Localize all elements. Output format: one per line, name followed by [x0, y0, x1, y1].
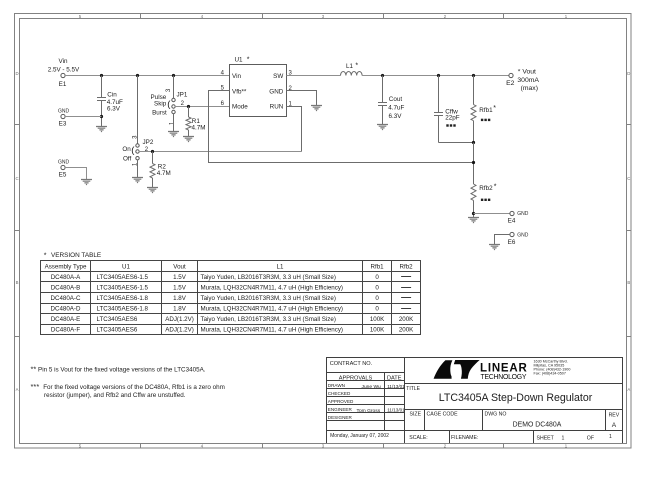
version table: [41, 252, 421, 334]
svg-text:DC480A-A: DC480A-A: [51, 274, 81, 281]
inductor L1: [341, 63, 363, 76]
svg-text:22pF: 22pF: [445, 115, 460, 122]
terminal E2 (Vout): [506, 69, 539, 93]
svg-text:LTC3405AES6-1.8: LTC3405AES6-1.8: [97, 306, 149, 313]
ground (below R1): [183, 137, 194, 142]
svg-text:DWG NO: DWG NO: [485, 411, 507, 417]
ground (E5): [81, 180, 92, 185]
wire Vin rail to JP2 pin 3: [137, 76, 139, 145]
svg-text:GND: GND: [58, 159, 70, 165]
svg-text:Vout: Vout: [173, 264, 186, 271]
svg-text:LTC3405A Step-Down Regulator: LTC3405A Step-Down Regulator: [439, 392, 593, 404]
wire U1 GND pin: [287, 91, 317, 106]
svg-text:GND: GND: [269, 88, 283, 95]
svg-text:200K: 200K: [399, 316, 414, 323]
svg-text:2.5V - 5.5V: 2.5V - 5.5V: [48, 66, 80, 73]
svg-text:1: 1: [562, 436, 565, 442]
svg-text:Rfb2: Rfb2: [479, 185, 493, 192]
wire Vout rail: [362, 75, 509, 77]
svg-text:Mode: Mode: [232, 104, 248, 111]
wire JP1 pin 2 to Mode: [175, 106, 230, 108]
svg-text:* Vout: * Vout: [518, 69, 536, 76]
node Rfb1/Cffw junction: [472, 141, 475, 144]
svg-text:*: *: [44, 252, 47, 259]
svg-text:4.7uF: 4.7uF: [388, 104, 404, 111]
svg-text:LINEAR: LINEAR: [480, 363, 527, 375]
svg-text:SIZE: SIZE: [410, 411, 422, 417]
svg-text:OF: OF: [587, 436, 594, 442]
note ** pin 5: [31, 365, 206, 374]
svg-text:ADJ(1.2V): ADJ(1.2V): [165, 327, 194, 334]
svg-text:CAGE CODE: CAGE CODE: [427, 411, 459, 417]
svg-text:DC480A-D: DC480A-D: [51, 306, 81, 313]
node JP1/R1 junction: [187, 105, 190, 108]
svg-text:Tom Gross: Tom Gross: [357, 408, 381, 414]
svg-text:CHECKED: CHECKED: [328, 391, 351, 396]
svg-text:SCALE:: SCALE:: [409, 435, 427, 441]
svg-text:SW: SW: [273, 73, 283, 80]
wire JP1 pin 1 down: [173, 113, 175, 131]
svg-text:DC480A-C: DC480A-C: [51, 295, 81, 302]
svg-text:0: 0: [375, 274, 379, 281]
svg-text:C: C: [627, 176, 630, 181]
svg-text:E6: E6: [508, 239, 516, 246]
title block: [327, 358, 623, 444]
jumper JP1 (Pulse Skip / Burst): [151, 88, 188, 125]
svg-text:TECHNOLOGY: TECHNOLOGY: [481, 374, 527, 381]
wire feedback column: [473, 143, 475, 185]
svg-text:June Wu: June Wu: [362, 384, 381, 390]
node Cin/E3 junction: [100, 115, 103, 118]
svg-text:Fax: (408)434-0507: Fax: (408)434-0507: [534, 372, 566, 376]
svg-text:Vin: Vin: [59, 58, 68, 65]
svg-text:CONTRACT NO.: CONTRACT NO.: [330, 361, 373, 367]
svg-text:E4: E4: [508, 218, 516, 225]
svg-text:C: C: [15, 176, 18, 181]
svg-text:L1: L1: [277, 264, 284, 271]
svg-text:LTC3405AES6-1.5: LTC3405AES6-1.5: [97, 284, 149, 291]
node Vfb tap junction: [472, 161, 475, 164]
svg-text:E5: E5: [59, 171, 67, 178]
wire Vfb feedback net: [209, 91, 474, 163]
terminal E3 (GND): [58, 108, 70, 127]
wire SW to L1: [287, 75, 341, 77]
svg-text:Skip: Skip: [154, 101, 167, 108]
svg-text:E1: E1: [59, 81, 67, 88]
capacitor Cffw 22pF: [434, 76, 460, 143]
ground (U1 GND pin): [311, 106, 322, 111]
svg-text:Cout: Cout: [389, 96, 403, 103]
svg-text:DATE: DATE: [387, 375, 402, 381]
node Vout/Cffw junction: [437, 74, 440, 77]
svg-text:GND: GND: [58, 108, 70, 114]
IC U1 LTC3405A: [230, 56, 287, 116]
ground (below Cout): [377, 125, 388, 130]
svg-text:For the fixed voltage versions: For the fixed voltage versions of the DC…: [43, 384, 225, 391]
note *** fixed voltage versions: [31, 382, 225, 399]
svg-text:B: B: [16, 280, 19, 285]
svg-text:DEMO DC480A: DEMO DC480A: [513, 422, 562, 429]
svg-text:DC480A-E: DC480A-E: [51, 316, 81, 323]
svg-text:U1: U1: [235, 57, 244, 64]
terminal E4 (GND): [508, 211, 529, 225]
svg-text:6.3V: 6.3V: [107, 106, 121, 113]
svg-text:resistor (jumper), and Rfb2 an: resistor (jumper), and Rfb2 and Cffw are…: [44, 392, 186, 399]
svg-text:JP2: JP2: [143, 139, 154, 146]
svg-text:FILENAME:: FILENAME:: [451, 435, 478, 441]
svg-text:4.7M: 4.7M: [192, 125, 206, 132]
svg-text:DC480A-F: DC480A-F: [51, 327, 80, 334]
svg-text:4.7M: 4.7M: [157, 170, 171, 177]
svg-text:0: 0: [375, 306, 379, 313]
resistor Rfb2: [471, 183, 497, 217]
svg-text:GND: GND: [517, 233, 529, 239]
svg-text:Vfb**: Vfb**: [232, 88, 247, 95]
svg-text:A: A: [16, 387, 19, 392]
svg-text:1.8V: 1.8V: [173, 295, 187, 302]
wire E3 to Cin: [65, 116, 102, 118]
svg-text:*: *: [355, 63, 358, 70]
svg-text:Assembly Type: Assembly Type: [45, 264, 87, 271]
svg-text:300mA: 300mA: [517, 77, 539, 84]
resistor R2 4.7M: [150, 152, 171, 188]
svg-text:D: D: [15, 71, 18, 76]
node JP2/R2 junction: [151, 150, 154, 153]
resistor R1 4.7M: [186, 107, 206, 137]
svg-text:Taiyo Yuden, LB2016T3R3M, 3.3: Taiyo Yuden, LB2016T3R3M, 3.3 uH (Small …: [201, 316, 336, 323]
svg-text:SHEET: SHEET: [537, 436, 555, 442]
svg-text:LTC3405AES6: LTC3405AES6: [97, 316, 138, 323]
svg-text:Burst: Burst: [152, 110, 167, 117]
ground (below Cin): [96, 127, 107, 132]
jumper JP2 (On/Off): [122, 135, 153, 166]
svg-text:Rfb1: Rfb1: [371, 264, 385, 271]
node Vin/JP1 junction: [172, 74, 175, 77]
logo Linear Technology: [434, 360, 571, 382]
node Vout/Cout junction: [381, 74, 384, 77]
svg-text:Off: Off: [123, 155, 132, 162]
svg-text:ENGINEER: ENGINEER: [328, 407, 353, 412]
svg-text:LTC3405AES6: LTC3405AES6: [97, 327, 138, 334]
wire Vin rail: [65, 75, 230, 77]
svg-text:DRAWN: DRAWN: [328, 383, 345, 388]
wire E6 to ground: [495, 235, 511, 245]
svg-text:6.3V: 6.3V: [389, 113, 403, 120]
svg-text:Murata, LQH32CN4R7M11, 4.7 uH: Murata, LQH32CN4R7M11, 4.7 uH (High Effi…: [201, 306, 343, 313]
svg-text:100K: 100K: [370, 327, 385, 334]
svg-text:B: B: [627, 280, 630, 285]
svg-text:11/13/01: 11/13/01: [387, 408, 405, 413]
svg-text:LTC3405AES6-1.5: LTC3405AES6-1.5: [97, 274, 149, 281]
resistor Rfb1: [471, 76, 496, 143]
svg-text:Vin: Vin: [232, 73, 241, 80]
svg-text:U1: U1: [122, 264, 130, 271]
terminal E5 (GND): [58, 159, 70, 178]
svg-text:APPROVED: APPROVED: [328, 399, 354, 404]
wire Cffw to Rfb1 bottom: [439, 142, 474, 144]
svg-text:Cin: Cin: [107, 92, 117, 99]
svg-text:11/13/01: 11/13/01: [387, 384, 405, 389]
svg-text:E3: E3: [59, 120, 67, 127]
svg-text:***: ***: [31, 382, 40, 391]
svg-text:TITLE: TITLE: [406, 386, 420, 392]
svg-text:Murata, LQH32CN4R7M11, 4.7 uH: Murata, LQH32CN4R7M11, 4.7 uH (High Effi…: [201, 327, 343, 334]
svg-text:(max): (max): [521, 85, 538, 92]
svg-text:A: A: [612, 422, 617, 429]
wire RUN loop: [287, 107, 302, 152]
svg-text:Rfb2: Rfb2: [400, 264, 414, 271]
svg-text:Taiyo Yuden, LB2016T3R3M, 3.3: Taiyo Yuden, LB2016T3R3M, 3.3 uH (Small …: [201, 295, 336, 302]
svg-text:*: *: [247, 56, 250, 63]
svg-text:1.5V: 1.5V: [173, 284, 187, 291]
svg-text:APPROVALS: APPROVALS: [339, 375, 373, 381]
wire Vin rail to JP1 pin 3: [173, 76, 175, 99]
svg-text:DC480A-B: DC480A-B: [51, 284, 81, 291]
svg-text:1.8V: 1.8V: [173, 306, 187, 313]
svg-text:Murata, LQH32CN4R7M11, 4.7 uH: Murata, LQH32CN4R7M11, 4.7 uH (High Effi…: [201, 284, 343, 291]
wire E5 to ground: [65, 168, 87, 180]
node Vin/Cin junction: [100, 74, 103, 77]
svg-text:Pin 5 is Vout for the fixed vo: Pin 5 is Vout for the fixed voltage vers…: [38, 367, 206, 374]
svg-text:L1: L1: [346, 63, 354, 70]
svg-text:Taiyo Yuden, LB2016T3R3M, 3.3: Taiyo Yuden, LB2016T3R3M, 3.3 uH (Small …: [201, 274, 336, 281]
ground (below JP1): [168, 132, 179, 137]
svg-text:E2: E2: [506, 80, 515, 87]
svg-text:RUN: RUN: [270, 104, 284, 111]
svg-text:**: **: [31, 365, 37, 374]
svg-text:REV: REV: [609, 413, 620, 419]
terminal E1 (Vin input): [48, 58, 80, 88]
capacitor Cin 4.7uF 6.3V: [97, 76, 123, 127]
wire Rfb2 to E4: [474, 213, 511, 215]
svg-text:LTC3405AES6-1.8: LTC3405AES6-1.8: [97, 295, 149, 302]
svg-text:0: 0: [375, 284, 379, 291]
node Vout/Rfb1 junction: [472, 74, 475, 77]
svg-text:JP1: JP1: [177, 92, 188, 99]
svg-text:On: On: [122, 146, 131, 153]
svg-text:*: *: [493, 105, 496, 112]
node Rfb2/E4 junction: [472, 212, 475, 215]
wire JP2 pin 1 down: [137, 160, 139, 178]
ground (below Rfb2): [468, 218, 479, 223]
svg-text:A: A: [627, 387, 630, 392]
ground (below R2): [147, 188, 158, 193]
terminal E6 (GND): [508, 232, 529, 246]
svg-text:D: D: [627, 71, 630, 76]
svg-text:ADJ(1.2V): ADJ(1.2V): [165, 316, 194, 323]
svg-text:100K: 100K: [370, 316, 385, 323]
svg-text:GND: GND: [517, 211, 529, 217]
svg-text:0: 0: [375, 295, 379, 302]
svg-text:Rfb1: Rfb1: [479, 107, 493, 114]
svg-text:VERSION TABLE: VERSION TABLE: [51, 252, 101, 259]
ground (below JP2): [132, 178, 143, 183]
ground (E6): [489, 245, 500, 250]
svg-text:Monday, January 07, 2002: Monday, January 07, 2002: [330, 433, 389, 439]
wire JP2 pin 2 to RUN loop: [139, 151, 302, 153]
svg-text:1.5V: 1.5V: [173, 274, 187, 281]
svg-text:1: 1: [609, 434, 612, 440]
svg-text:200K: 200K: [399, 327, 414, 334]
node Vin/JP2 junction: [136, 74, 139, 77]
svg-text:DESIGNER: DESIGNER: [328, 415, 353, 420]
svg-text:*: *: [494, 183, 497, 190]
capacitor Cout 4.7uF 6.3V: [378, 76, 405, 125]
